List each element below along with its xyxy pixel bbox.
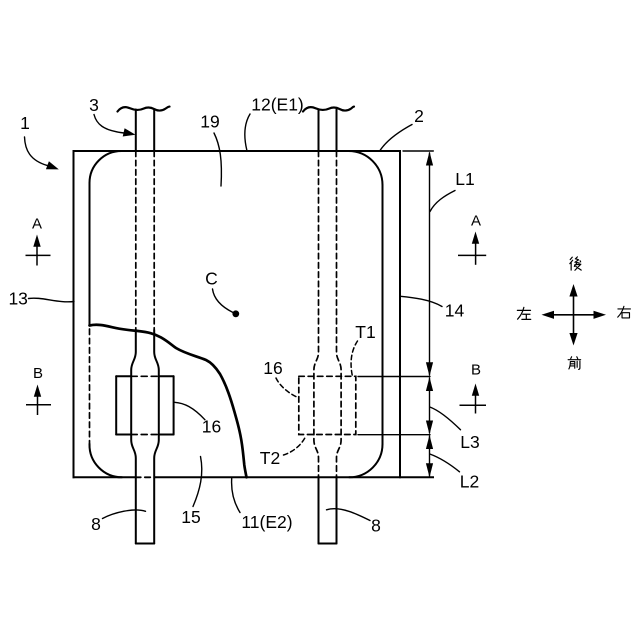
compass arrowhead down (front)	[569, 333, 577, 346]
svg-text:A: A	[471, 213, 481, 230]
seal bushing 16 (left) top edge solid parts	[116, 375, 173, 377]
dim arrowhead up at 435 (L2 top)	[426, 435, 433, 449]
compass label left (kanji hidari drawn as strokes)	[517, 307, 530, 319]
leader for label 8 (right)	[327, 509, 371, 521]
svg-text:1: 1	[20, 113, 30, 133]
svg-text:16: 16	[202, 417, 221, 437]
leader for label L3	[430, 407, 461, 430]
seal bushing 16 (left) top edge hidden across pin	[131, 375, 159, 377]
dashed leader for label T2	[284, 437, 306, 455]
leader for label 2	[380, 125, 412, 151]
dim arrowhead down at 477.3 (L2 bottom)	[426, 463, 433, 477]
leader for label 15	[193, 457, 202, 507]
svg-text:T2: T2	[260, 448, 280, 468]
outer case bottom edge hidden across left pin	[135, 476, 154, 478]
svg-text:B: B	[33, 365, 43, 382]
dim arrowhead up at top edge	[426, 152, 433, 166]
arrowhead of leader 1	[46, 161, 59, 169]
svg-text:11(E2): 11(E2)	[241, 512, 292, 532]
leader for label L1	[430, 191, 455, 212]
svg-text:L3: L3	[460, 432, 479, 452]
right pin below case	[319, 477, 337, 543]
left pin break squiggle	[118, 107, 170, 112]
cut-away section boundary (thick freehand line)	[90, 325, 247, 478]
svg-text:8: 8	[371, 516, 381, 536]
compass arrowhead right	[594, 311, 607, 319]
arrowhead of leader 3	[123, 128, 136, 136]
dimension line L3 span	[429, 378, 431, 433]
outer case top edge	[74, 150, 401, 152]
dimension extension line at bushing top level	[358, 376, 430, 378]
svg-text:B: B	[471, 362, 481, 379]
seal bushing 16 (left) bottom edge hidden across pin	[131, 434, 159, 436]
seal bushing 16 (left) bottom edge solid parts	[116, 434, 173, 436]
seal bushing 16 (left, sectioned) left edge	[115, 376, 117, 434]
electrode body 19: right edge	[382, 185, 384, 444]
leader for label 13	[29, 298, 75, 302]
dimension line L2 span	[429, 436, 431, 476]
compass label right (kanji migi drawn as strokes)	[618, 306, 631, 318]
electrode body 19: top-left corner arc	[90, 151, 122, 183]
direction compass vertical arrow	[549, 293, 598, 337]
dimension line L1 span	[429, 153, 431, 375]
outer case right edge	[399, 151, 401, 477]
svg-text:2: 2	[414, 106, 424, 126]
right pin bottom end cap	[319, 543, 337, 545]
svg-text:L1: L1	[455, 169, 474, 189]
leader for label C	[213, 289, 234, 313]
outer case bottom edge (solid parts)	[74, 476, 434, 478]
compass arrowhead left	[542, 311, 555, 319]
dashed leader for label T1	[351, 341, 357, 376]
compass arrowhead up (rear)	[569, 284, 577, 297]
seal bushing 16 (right, hidden)	[299, 376, 356, 434]
section marker A (left)	[26, 244, 51, 266]
svg-text:L2: L2	[460, 472, 479, 492]
seal bushing 16 (left) right edge	[173, 376, 175, 434]
dim arrowhead up at 376.7 (L3 top)	[426, 377, 433, 391]
electrode body 19: bottom-left corner arc	[89, 444, 122, 477]
leader for label 19	[214, 133, 221, 186]
compass label front (kanji mae drawn as strokes)	[568, 357, 581, 370]
section marker B (left)	[26, 394, 51, 415]
svg-text:A: A	[32, 216, 42, 233]
dimension extension line at case top	[403, 150, 433, 152]
svg-text:12(E1): 12(E1)	[251, 95, 304, 115]
leader for label 8 (left)	[103, 510, 146, 519]
svg-text:16: 16	[263, 358, 282, 378]
leader for label 11(E2)	[232, 479, 240, 513]
dim arrowhead down at 434.5 (L3 bottom)	[426, 421, 433, 435]
svg-text:19: 19	[200, 112, 219, 132]
leader for label 1	[25, 137, 48, 166]
leader for label 14	[401, 296, 443, 306]
leader for label 16 (left solid)	[175, 402, 206, 420]
svg-text:13: 13	[8, 289, 27, 309]
reference dot C	[232, 310, 239, 317]
leader for label 3	[94, 115, 124, 134]
electrode body 19: left edge solid	[89, 183, 91, 326]
svg-text:14: 14	[445, 301, 465, 321]
section marker A (right)	[458, 241, 486, 265]
right pin break squiggle	[303, 107, 354, 112]
right pin hidden outline (dashed)	[314, 151, 341, 477]
terminal pin 8/11 (right) above case	[319, 110, 337, 152]
electrode body 19: left edge hidden (dashed)	[89, 329, 91, 444]
left pin sectioned outline (solid)	[131, 330, 159, 544]
dashed leader for label 16 (right)	[276, 378, 298, 397]
svg-text:C: C	[205, 269, 218, 289]
terminal pin 3/12 (left) above case	[136, 110, 154, 152]
dim arrowhead down at 376.5 (L1 bottom)	[426, 362, 433, 376]
electrode body 19: bottom-right corner arc	[349, 444, 382, 477]
svg-text:3: 3	[89, 95, 99, 115]
leader for label 12(E1)	[245, 114, 250, 150]
svg-text:8: 8	[91, 514, 101, 534]
svg-text:15: 15	[181, 507, 200, 527]
outer case left edge	[73, 151, 75, 477]
left pin bottom end cap	[136, 543, 154, 545]
electrode body 19: top-right corner arc	[349, 151, 383, 185]
dimension extension line at bushing bottom level	[358, 434, 430, 436]
left pin hidden shaft (dashed)	[136, 151, 154, 330]
svg-text:T1: T1	[355, 322, 375, 342]
leader for label L2	[430, 454, 460, 472]
compass label rear (kanji ato drawn as strokes)	[570, 257, 581, 270]
section marker B (right)	[460, 393, 487, 414]
